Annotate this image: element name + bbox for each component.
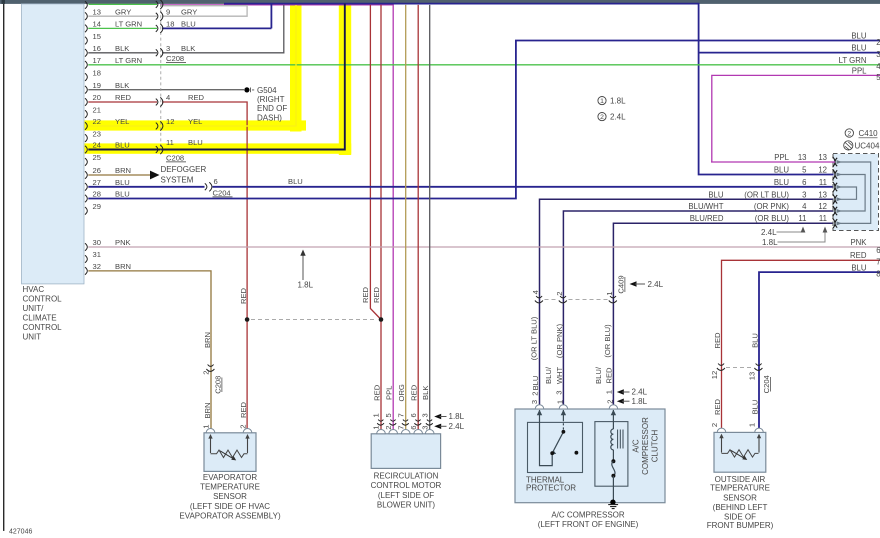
svg-text:3: 3 — [420, 425, 429, 429]
svg-text:3: 3 — [420, 413, 429, 417]
wire PNK pin 30 full width — [88, 246, 880, 248]
svg-text:SIDE OF: SIDE OF — [724, 512, 756, 521]
junction dot red x247 — [245, 317, 250, 322]
wire GRY loop pin 9 — [160, 6, 247, 17]
connector C409 scallops on compressor wires — [535, 296, 617, 303]
top toolbar bar — [0, 0, 880, 4]
wire PPL top run C208 to recirc motor — [160, 5, 393, 431]
svg-text:HVAC: HVAC — [23, 285, 45, 294]
svg-text:28: 28 — [93, 190, 101, 199]
svg-text:6: 6 — [409, 425, 418, 429]
clutch 2.4L 1.8L arrows — [617, 389, 624, 394]
outside air sensor terminal bumps — [717, 428, 763, 432]
svg-text:1.8L: 1.8L — [632, 397, 648, 406]
wire PPL vertical from right edge run — [712, 75, 880, 161]
svg-text:6: 6 — [876, 246, 880, 255]
svg-text:BLU: BLU — [531, 376, 540, 391]
svg-text:4: 4 — [802, 202, 807, 211]
svg-text:A/C: A/C — [632, 439, 641, 453]
svg-text:UC404: UC404 — [855, 141, 880, 150]
svg-text:YEL: YEL — [115, 117, 129, 126]
svg-text:BLU: BLU — [750, 400, 759, 415]
svg-text:2: 2 — [605, 400, 614, 404]
svg-text:2.4L: 2.4L — [648, 280, 664, 289]
svg-text:(OR BLU): (OR BLU) — [755, 214, 790, 223]
recirc motor terminal bumps — [377, 430, 434, 434]
svg-text:3: 3 — [166, 44, 170, 53]
evaporator sensor terminal bumps — [206, 429, 252, 433]
outside air sensor thermistor — [722, 450, 759, 457]
svg-text:DASH): DASH) — [257, 113, 282, 122]
svg-text:EVAPORATOR ASSEMBLY): EVAPORATOR ASSEMBLY) — [179, 511, 281, 520]
thermal protector wires and switch — [540, 410, 564, 466]
svg-text:YEL: YEL — [188, 117, 202, 126]
recirc 1.8L 2.4L arrows — [434, 414, 441, 419]
svg-text:RED: RED — [373, 384, 382, 401]
svg-text:(OR LT BLU): (OR LT BLU) — [530, 316, 539, 360]
svg-text:(OR PNK): (OR PNK) — [555, 323, 564, 358]
wire GRY pin 13 — [88, 15, 157, 17]
svg-text:11: 11 — [166, 138, 174, 147]
svg-text:BRN: BRN — [203, 332, 212, 348]
svg-text:GRY: GRY — [115, 7, 131, 16]
svg-text:1.8L: 1.8L — [762, 238, 778, 247]
svg-text:6: 6 — [409, 413, 418, 417]
wire LT GRN pin 17 full width — [88, 64, 880, 66]
svg-text:29: 29 — [93, 202, 101, 211]
connector label UC404 — [844, 141, 853, 150]
svg-text:RED: RED — [605, 367, 614, 384]
wire BLU pin 27 through C204 to C410 — [88, 186, 204, 188]
svg-text:BLU: BLU — [851, 31, 867, 40]
svg-text:BLU: BLU — [851, 263, 867, 272]
wire RED vertical x370 merging — [370, 5, 381, 320]
svg-text:RED: RED — [713, 332, 722, 349]
svg-text:RED: RED — [361, 286, 370, 303]
svg-text:13: 13 — [818, 153, 827, 162]
svg-text:6: 6 — [214, 177, 218, 186]
svg-text:2.4L: 2.4L — [761, 228, 777, 237]
svg-text:BLU: BLU — [750, 333, 759, 348]
svg-text:LT GRN: LT GRN — [115, 20, 142, 29]
wire BLK pin 3 C208 up to top — [162, 5, 284, 53]
svg-text:16: 16 — [93, 44, 101, 53]
1.8L pointer to C410 pin column 2 — [778, 230, 826, 242]
svg-text:COMPRESSOR: COMPRESSOR — [641, 417, 650, 475]
svg-text:1: 1 — [372, 425, 381, 429]
svg-text:OUTSIDE AIR: OUTSIDE AIR — [715, 475, 766, 484]
svg-text:SYSTEM: SYSTEM — [161, 175, 194, 184]
C208 pin numbers and colors column 2 — [166, 7, 205, 146]
HVAC pin numbers column 1 — [93, 7, 101, 271]
svg-text:PPL: PPL — [385, 386, 394, 400]
connector C208 on evaporator brown wire — [206, 365, 214, 372]
evaporator sensor internal arrows — [211, 437, 248, 453]
svg-text:RED: RED — [188, 93, 205, 102]
svg-text:2.4L: 2.4L — [449, 422, 465, 431]
connector C410 internal bridge middle — [838, 175, 865, 212]
evaporator sensor thermistor — [211, 450, 248, 457]
ground G504 dot — [244, 87, 249, 92]
connector C410/UC404 dashed box — [834, 154, 879, 230]
svg-text:C204: C204 — [762, 375, 771, 393]
svg-text:(LEFT SIDE OF: (LEFT SIDE OF — [378, 491, 434, 500]
svg-text:7: 7 — [876, 258, 880, 267]
svg-text:C208: C208 — [214, 376, 223, 394]
wire PPL into C410 pin 13 — [711, 161, 835, 163]
svg-text:18: 18 — [166, 20, 174, 29]
svg-text:DEFOGGER: DEFOGGER — [161, 165, 207, 174]
wire RED vertical to recirc motor pin 6 — [417, 5, 419, 431]
wire BLU top run x271 to x698 — [224, 4, 835, 175]
svg-text:18: 18 — [93, 68, 101, 77]
svg-text:BRN: BRN — [203, 402, 212, 418]
svg-text:9: 9 — [166, 7, 170, 16]
svg-text:TEMPERATURE: TEMPERATURE — [200, 483, 260, 492]
thermal protector inner box — [528, 422, 583, 472]
HVAC connector scallops — [85, 1, 87, 275]
svg-text:8: 8 — [876, 270, 880, 279]
svg-text:C204: C204 — [213, 188, 231, 197]
svg-text:13: 13 — [93, 7, 101, 16]
wire RED vertical x381 to recirc motor pin 1 — [380, 5, 382, 431]
wire BLU pin 24 highlighted dark — [88, 4, 345, 150]
svg-text:TEMPERATURE: TEMPERATURE — [710, 484, 770, 493]
wire BLK pin 16 — [88, 52, 157, 54]
svg-text:2: 2 — [384, 425, 393, 429]
svg-text:RED: RED — [850, 251, 867, 260]
left page border line — [3, 4, 4, 531]
legend circled 1 1.8L — [598, 97, 606, 105]
svg-text:BLU: BLU — [708, 190, 724, 199]
svg-text:CONTROL: CONTROL — [23, 295, 63, 304]
svg-text:BLK: BLK — [115, 44, 129, 53]
wire BLU pin 28 to vertical x516 — [88, 41, 880, 199]
svg-text:BRN: BRN — [115, 166, 131, 175]
svg-text:ORG: ORG — [397, 384, 406, 401]
svg-text:RED: RED — [372, 286, 381, 303]
svg-text:13: 13 — [798, 153, 807, 162]
svg-text:RECIRCULATION: RECIRCULATION — [374, 472, 439, 481]
svg-text:(OR BLU): (OR BLU) — [603, 324, 612, 358]
right edge wire labels top — [839, 31, 880, 82]
wire YEL pin 22 highlighted (covered by highlighter band) — [88, 5, 296, 126]
svg-text:2.4L: 2.4L — [632, 388, 648, 397]
svg-text:RED: RED — [713, 398, 722, 415]
svg-text:BLU: BLU — [774, 165, 790, 174]
defogger arrow — [150, 171, 160, 180]
svg-text:1: 1 — [202, 425, 211, 429]
svg-text:1: 1 — [748, 423, 757, 427]
svg-text:1: 1 — [372, 413, 381, 417]
svg-text:20: 20 — [93, 93, 101, 102]
svg-text:SENSOR: SENSOR — [723, 493, 757, 502]
svg-text:12: 12 — [818, 202, 827, 211]
svg-text:5: 5 — [876, 73, 880, 82]
svg-text:RED: RED — [239, 287, 248, 304]
svg-text:12: 12 — [818, 165, 827, 174]
wire LT GRN top partial row pin 12 — [89, 3, 158, 5]
svg-text:BLU/WHT: BLU/WHT — [688, 202, 723, 211]
yellow highlight: vertical band at x345 (row 24 path) — [339, 4, 351, 155]
wire RED outside air temp sensor — [722, 260, 880, 430]
svg-text:PPL: PPL — [774, 153, 789, 162]
svg-text:BLU/RED: BLU/RED — [690, 214, 724, 223]
svg-text:UNIT/: UNIT/ — [23, 304, 45, 313]
svg-text:BLU: BLU — [774, 178, 790, 187]
svg-text:19: 19 — [93, 81, 101, 90]
outside air temperature sensor box — [714, 432, 766, 472]
svg-text:SENSOR: SENSOR — [213, 492, 247, 501]
clutch coil — [612, 410, 614, 429]
ground symbol below A/C compressor — [610, 500, 615, 505]
svg-text:(OR LT BLU): (OR LT BLU) — [744, 190, 789, 199]
yellow highlight: horizontal band row 24 — [85, 143, 352, 153]
svg-text:2: 2 — [202, 371, 211, 375]
wire BRN pin 32 down to evaporator sensor — [88, 271, 211, 431]
connector C410 internal bridge outer — [838, 162, 871, 223]
outside air sensor internal arrows — [722, 437, 760, 453]
svg-text:3: 3 — [876, 50, 880, 59]
wire BLK vertical to recirc motor pin 3 — [429, 5, 431, 431]
svg-text:BLU: BLU — [115, 141, 130, 150]
svg-text:EVAPORATOR: EVAPORATOR — [203, 473, 257, 482]
wire BRN pin 26 to defogger — [88, 174, 150, 176]
svg-text:BLK: BLK — [181, 44, 195, 53]
svg-text:24: 24 — [93, 141, 101, 150]
HVAC wire color labels column 1 — [115, 7, 142, 271]
svg-text:2: 2 — [876, 38, 880, 47]
recirc motor inline connector scallops — [377, 420, 432, 426]
svg-text:BRN: BRN — [115, 262, 131, 271]
HVAC control unit box — [22, 4, 85, 284]
connector C410 internal bridge inner — [838, 187, 857, 199]
svg-text:C409: C409 — [617, 275, 626, 293]
2.4L note at C409 — [630, 281, 637, 286]
svg-text:31: 31 — [93, 250, 101, 259]
svg-text:1.8L: 1.8L — [298, 281, 314, 290]
svg-text:PPL: PPL — [852, 67, 867, 76]
connector C204 on outside air sensor wires — [717, 364, 763, 371]
svg-text:1: 1 — [600, 98, 604, 105]
A/C compressor terminal bumps — [535, 405, 617, 409]
svg-text:PNK: PNK — [850, 238, 867, 247]
2.4L pointer to C410 pin column 1 — [777, 230, 804, 232]
svg-text:32: 32 — [93, 262, 101, 271]
svg-text:26: 26 — [93, 166, 101, 175]
connector C410 terminal curls — [833, 157, 838, 229]
svg-text:G504: G504 — [257, 86, 277, 95]
connector C208 dashed connector line — [160, 4, 162, 151]
svg-text:3: 3 — [530, 400, 539, 404]
svg-text:BLU: BLU — [851, 44, 867, 53]
A/C compressor clutch inner box — [595, 422, 628, 487]
svg-text:2: 2 — [600, 114, 604, 121]
svg-text:CONTROL: CONTROL — [23, 323, 63, 332]
svg-text:4: 4 — [166, 93, 170, 102]
svg-text:UNIT: UNIT — [23, 333, 42, 342]
svg-text:BLU: BLU — [181, 20, 196, 29]
svg-text:RED: RED — [115, 93, 132, 102]
svg-text:4: 4 — [876, 62, 880, 71]
svg-text:5: 5 — [802, 165, 807, 174]
wire BLU branch to right edge pin 3 — [699, 52, 880, 54]
svg-text:6: 6 — [802, 178, 806, 187]
recirculation control motor box — [371, 434, 440, 469]
svg-text:7: 7 — [396, 425, 405, 429]
svg-text:BLU/: BLU/ — [594, 366, 603, 384]
svg-text:BLU: BLU — [115, 190, 130, 199]
svg-text:22: 22 — [93, 117, 101, 126]
svg-text:2: 2 — [530, 391, 539, 395]
connector C204 scallops — [205, 182, 212, 191]
svg-text:(LEFT FRONT OF ENGINE): (LEFT FRONT OF ENGINE) — [538, 520, 639, 529]
junction dot red x381 — [379, 317, 384, 322]
svg-text:RED: RED — [239, 401, 248, 418]
wire RED pin 4 C208 down to evaporator sensor — [162, 102, 247, 430]
svg-text:5: 5 — [384, 413, 393, 417]
svg-text:BLOWER UNIT): BLOWER UNIT) — [377, 500, 436, 509]
svg-text:CONTROL MOTOR: CONTROL MOTOR — [371, 481, 442, 490]
svg-text:CLUTCH: CLUTCH — [651, 430, 660, 463]
A/C compressor box — [515, 409, 665, 503]
connector label C410 — [845, 129, 853, 137]
wire LT GRN pin 14 — [88, 27, 157, 29]
svg-text:7: 7 — [396, 413, 405, 417]
svg-text:C410: C410 — [859, 129, 879, 138]
svg-text:4: 4 — [531, 290, 540, 294]
svg-text:RED: RED — [410, 384, 419, 401]
svg-text:(RIGHT: (RIGHT — [257, 95, 285, 104]
svg-text:LT GRN: LT GRN — [839, 56, 867, 65]
svg-text:BLU: BLU — [115, 178, 130, 187]
svg-text:2.4L: 2.4L — [610, 112, 626, 121]
svg-text:BLK: BLK — [421, 386, 430, 400]
svg-text:LT GRN: LT GRN — [115, 56, 142, 65]
svg-text:(LEFT SIDE OF HVAC: (LEFT SIDE OF HVAC — [190, 502, 270, 511]
svg-text:BLU/: BLU/ — [544, 366, 553, 384]
svg-text:(BEHIND LEFT: (BEHIND LEFT — [713, 503, 768, 512]
wire BLU/RED (OR BLU) row to compressor clutch — [613, 223, 835, 430]
svg-text:END OF: END OF — [257, 104, 287, 113]
svg-text:17: 17 — [93, 56, 101, 65]
svg-text:14: 14 — [93, 20, 101, 29]
svg-text:1: 1 — [605, 292, 614, 296]
wire BLU pin 18 C208 — [162, 27, 271, 29]
svg-text:30: 30 — [93, 238, 101, 247]
wire BLU/WHT (OR PNK) row to thermal protector pin B — [563, 211, 835, 430]
svg-text:3: 3 — [554, 391, 563, 395]
svg-text:12: 12 — [166, 117, 174, 126]
svg-text:2: 2 — [555, 292, 564, 296]
svg-text:27: 27 — [93, 178, 101, 187]
svg-text:FRONT BUMPER): FRONT BUMPER) — [707, 521, 774, 530]
svg-text:11: 11 — [819, 178, 827, 187]
svg-text:2: 2 — [238, 425, 247, 429]
connector C208 scallops — [156, 0, 163, 154]
svg-text:427046: 427046 — [9, 529, 32, 536]
svg-text:3: 3 — [802, 190, 806, 199]
C410 row labels — [688, 153, 827, 223]
dashed link between red junctions — [251, 319, 377, 321]
legend circled 2 2.4L — [598, 113, 606, 121]
yellow highlight: vertical band at x296 (row 22 path) — [290, 4, 302, 132]
svg-text:13: 13 — [748, 372, 757, 380]
svg-text:13: 13 — [818, 190, 827, 199]
svg-text:A/C COMPRESSOR: A/C COMPRESSOR — [551, 511, 625, 520]
svg-text:BLU: BLU — [288, 177, 303, 186]
svg-text:2: 2 — [710, 423, 719, 427]
svg-text:23: 23 — [93, 129, 101, 138]
svg-text:(OR PNK): (OR PNK) — [754, 202, 789, 211]
svg-text:PROTECTOR: PROTECTOR — [526, 484, 576, 493]
svg-text:BLK: BLK — [115, 81, 129, 90]
svg-text:11: 11 — [819, 214, 827, 223]
svg-text:1: 1 — [555, 400, 564, 404]
wire BLU outside air temp sensor — [759, 272, 880, 430]
svg-text:1.8L: 1.8L — [610, 96, 626, 105]
wire BLU (OR LT BLU) row to thermal protector pin A — [540, 199, 836, 430]
svg-text:PNK: PNK — [115, 238, 131, 247]
svg-text:WHT: WHT — [555, 366, 564, 384]
svg-text:GRY: GRY — [181, 7, 197, 16]
svg-text:2: 2 — [847, 131, 851, 138]
svg-text:C208: C208 — [166, 153, 184, 162]
svg-text:25: 25 — [93, 153, 101, 162]
right edge wire labels middle — [850, 238, 880, 278]
svg-text:12: 12 — [710, 371, 719, 379]
wire RED pin 20 — [88, 101, 157, 103]
svg-text:21: 21 — [93, 105, 101, 114]
svg-text:C208: C208 — [166, 54, 184, 63]
wire BLK pin 19 to G504 — [88, 89, 244, 91]
svg-text:1.8L: 1.8L — [449, 412, 465, 421]
evaporator temperature sensor box — [204, 433, 256, 472]
wire ORG vertical to recirc motor — [405, 5, 407, 431]
yellow highlight: horizontal band row 22 — [85, 120, 307, 130]
svg-text:CLIMATE: CLIMATE — [23, 314, 57, 323]
svg-text:11: 11 — [798, 214, 806, 223]
svg-text:1: 1 — [604, 390, 613, 394]
svg-text:15: 15 — [93, 32, 101, 41]
svg-text:BLU: BLU — [188, 138, 203, 147]
